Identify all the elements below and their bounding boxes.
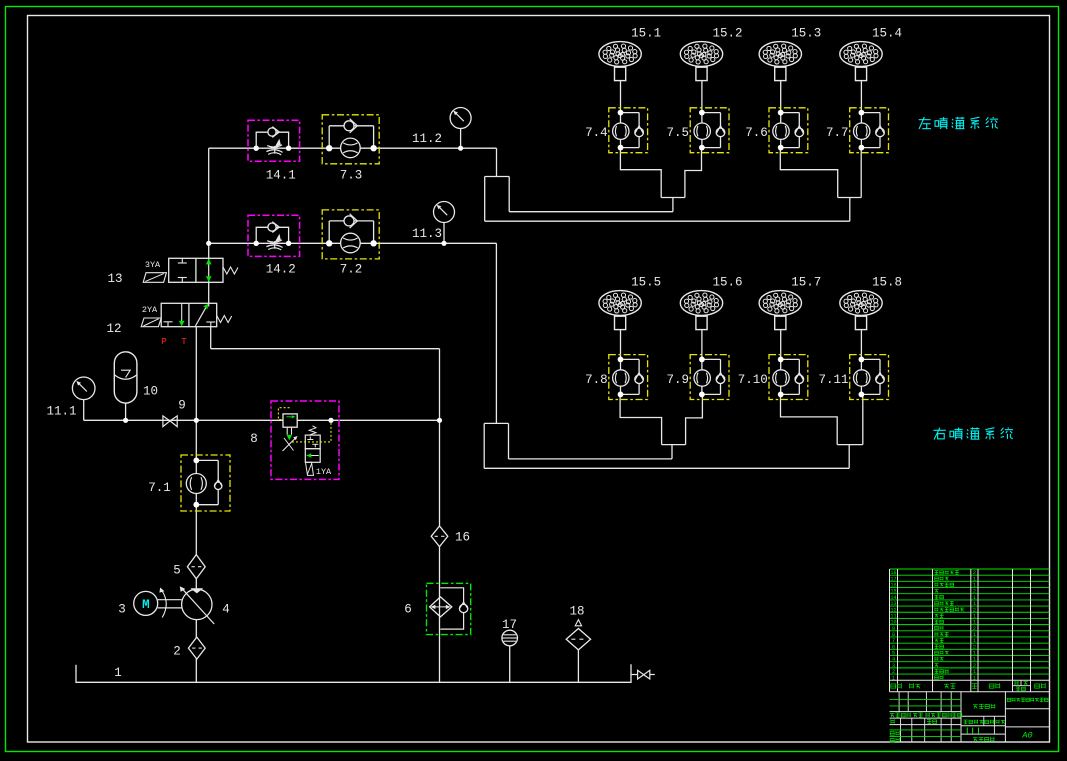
wire sprinkler 15.3 drop [780,81,782,112]
svg-text:1: 1 [973,613,976,619]
wire main line 11.2 row [209,147,497,149]
wire sprinkler 15.2 drop [701,81,703,112]
svg-text:2: 2 [892,669,895,675]
wire feed drop to left sprinkler manifold [496,148,498,176]
svg-text:2: 2 [973,607,976,613]
throttle check valve 14.1 [254,127,292,155]
wire left manifold pipe B [485,220,850,222]
svg-text:1: 1 [973,595,976,601]
solenoid valve 13 [143,258,238,282]
svg-text:7.6: 7.6 [745,126,768,140]
wire gauge 17 stem [509,646,511,683]
wire sprinkler 15.4 drop [860,81,862,112]
svg-text:1: 1 [973,638,976,644]
throttle check valve 14.2 dashed box [248,215,300,256]
shut-off valve 9 [163,416,177,427]
svg-text:3: 3 [892,663,895,669]
drain valve [631,670,655,679]
svg-text:15.7: 15.7 [791,276,821,290]
svg-text:1: 1 [973,675,976,681]
svg-text:2: 2 [973,589,976,595]
svg-text:7: 7 [892,638,895,644]
filter 16 [431,526,448,547]
wire between valve 13 and valve 12 [208,282,210,303]
wire sprinkler 15.6 drop [701,330,703,359]
svg-text:1: 1 [973,632,976,638]
wire branch collector 7.8/7.9 [620,394,662,444]
svg-text:11: 11 [890,613,896,619]
wire left manifold left wall [484,177,486,222]
flow control valve 7.9 dashed box [690,355,729,400]
svg-text:2YA: 2YA [142,305,158,315]
wire right manifold right wall [508,423,510,459]
flow control valve 7.4 [585,110,643,151]
sprinkler head 15.8 [840,276,902,331]
wire right manifold pipe A [509,458,673,460]
svg-text:7.9: 7.9 [666,373,689,387]
wire feed drop to right sprinkler manifold [495,243,497,423]
flow control valve 7.10 [738,357,804,398]
wire gauge-accumulator line to relief valve [84,419,440,421]
svg-text:6: 6 [892,644,895,650]
svg-text:1: 1 [973,657,976,663]
svg-text:2: 2 [973,663,976,669]
svg-text:T: T [181,336,187,347]
wire air filter 18 stem [577,650,579,682]
svg-text:M: M [142,598,150,612]
pilot line yellow dotted [278,408,331,442]
svg-text:A0: A0 [1021,731,1032,741]
svg-text:2: 2 [973,626,976,632]
label left irrigation system [919,117,998,129]
flow control valve 7.3 [326,119,377,158]
pressure gauge 11.3 [434,202,455,223]
flow control valve 7.1 [186,458,222,508]
sprinkler head 15.4 [840,27,902,82]
node junction on line 11.3 [206,241,211,246]
wire sprinkler 15.1 drop [620,81,622,112]
sprinkler head 15.1 [599,27,661,82]
svg-text:3: 3 [118,603,126,617]
flow control valve 7.11 [818,357,884,398]
title block BOM header row [891,681,1045,691]
flow control valve 7.10 dashed box [769,355,808,400]
svg-text:1: 1 [973,583,976,589]
svg-text:7.2: 7.2 [340,263,363,277]
svg-text:2: 2 [173,645,181,659]
svg-text:P: P [161,336,167,347]
flow control valve 7.6 dashed box [769,108,808,153]
svg-text:3YA: 3YA [145,260,161,270]
filter unit 6 dashed box [427,583,471,634]
wire main line 11.3 row [209,242,497,244]
svg-text:17: 17 [502,618,517,632]
pressure gauge 11.1 [72,377,95,400]
throttle check valve 14.2 [254,222,292,250]
svg-text:15.2: 15.2 [712,27,742,41]
svg-text:1: 1 [973,620,976,626]
rotation arrow [162,591,166,618]
svg-text:10: 10 [890,620,896,626]
pilot valve 1YA of relief valve 8 [305,426,332,477]
wire sprinkler 15.8 drop [860,330,862,359]
svg-text:1: 1 [973,576,976,582]
svg-text:7.3: 7.3 [340,169,363,183]
svg-text:15: 15 [890,589,896,595]
node junction pump riser and gauge line [194,418,199,423]
wire branch collector 7.10/7.11 [781,394,838,444]
svg-text:1: 1 [892,675,895,681]
svg-text:12: 12 [106,322,121,336]
svg-text:18: 18 [569,605,584,619]
svg-text:15.4: 15.4 [872,27,902,41]
motor shaft [158,599,182,601]
svg-text:2: 2 [973,644,976,650]
wire sprinkler 15.7 drop [780,330,782,359]
level gauge 17 [502,630,518,646]
wire tank line 1 [76,664,631,682]
svg-text:1: 1 [973,669,976,675]
svg-text:11.3: 11.3 [412,227,442,241]
wire gauge 11.1 stem [83,400,85,421]
flow control valve 7.11 dashed box [850,355,889,400]
flow control valve 7.9 [666,357,724,398]
svg-text:16: 16 [890,583,896,589]
node junction return riser and relief line [437,418,442,423]
wire pump riser through 7.1 [195,327,197,683]
svg-text:5: 5 [892,651,895,657]
wire right manifold left wall [483,423,485,468]
title block texts [890,698,1048,743]
svg-text:16: 16 [455,531,470,545]
svg-text:14.2: 14.2 [266,263,296,277]
flow control valve 7.8 [585,357,643,398]
sprinkler head 15.7 [759,276,821,331]
svg-text:12: 12 [890,607,896,613]
pilot relief valve 8 dashed box [271,401,339,479]
svg-text:7.11: 7.11 [818,373,848,387]
svg-text:4: 4 [222,603,230,617]
wire sprinkler 15.5 drop [620,330,622,359]
svg-text:14.1: 14.1 [266,169,296,183]
variable displacement pump 4 [180,586,214,624]
flow control valve 7.8 dashed box [609,355,648,400]
svg-text:1: 1 [973,651,976,657]
check valve 2 [188,637,205,659]
wire valve 12 drain down [210,327,212,349]
svg-text:8: 8 [892,632,895,638]
filter unit 6 [430,588,468,629]
svg-text:15.1: 15.1 [631,27,661,41]
throttle check valve 14.1 dashed box [248,120,300,161]
svg-text:7.8: 7.8 [585,373,608,387]
svg-text:18: 18 [890,570,896,576]
svg-text:15.6: 15.6 [712,276,742,290]
svg-text:2: 2 [973,570,976,576]
svg-text:4: 4 [892,657,895,663]
wire return riser to tank [439,349,441,683]
solenoid valve 12 [141,303,232,326]
flow control valve 7.5 dashed box [690,108,729,153]
sprinkler head 15.6 [680,276,742,331]
wire branch collector 7.4/7.5 [620,148,661,198]
wire gauge 11.3 stem [443,223,445,244]
svg-text:1YA: 1YA [316,467,332,477]
pressure gauge 11.2 [450,108,471,129]
svg-text:10: 10 [143,385,158,399]
sprinkler head 15.5 [599,276,661,331]
svg-text:13: 13 [890,601,896,607]
svg-text:8: 8 [250,432,258,446]
svg-text:13: 13 [107,272,122,286]
wire left manifold header top [485,176,510,178]
svg-text:1: 1 [973,601,976,607]
svg-text:7.10: 7.10 [738,373,768,387]
flow control valve 7.7 dashed box [850,108,889,153]
wire right manifold header top [484,422,508,424]
motor 3 [134,591,158,615]
svg-text:1: 1 [114,666,122,680]
flow control valve 7.2 [326,214,377,253]
wire accumulator stem [125,403,127,420]
wire left manifold right wall [508,177,510,212]
flow control valve 7.5 [666,110,724,151]
flow control valve 7.3 dashed box [322,115,379,164]
svg-text:15.8: 15.8 [872,276,902,290]
svg-text:5: 5 [173,564,181,578]
svg-text:7.1: 7.1 [148,481,171,495]
flow control valve 7.7 [826,110,884,151]
flow control valve 7.2 dashed box [322,210,379,259]
svg-text:15.5: 15.5 [631,276,661,290]
pilot relief valve 8 main stage [283,414,298,451]
flow control valve 7.6 [745,110,803,151]
wire left manifold pipe A [509,211,673,213]
title block BOM rows content [890,570,976,681]
flow control valve 7.1 dashed box [181,455,230,511]
check valve 5 [187,555,205,579]
svg-text:17: 17 [890,576,896,582]
sprinkler head 15.2 [680,27,742,82]
label right irrigation system [933,427,1013,439]
title block lower section grid [890,692,1050,742]
wire branch collector 7.6/7.7 [780,148,837,198]
air filter 18 [566,620,590,650]
wire valve 12 drain horizontal [211,348,440,350]
svg-text:14: 14 [890,595,896,601]
svg-text:15.3: 15.3 [791,27,821,41]
svg-text:9: 9 [178,399,186,413]
svg-text:11.2: 11.2 [412,132,442,146]
svg-text:7.4: 7.4 [585,126,608,140]
wire right manifold pipe B [484,467,849,469]
wire gauge 11.2 stem [460,129,462,149]
svg-text:7.7: 7.7 [826,126,849,140]
sprinkler head 15.3 [759,27,821,82]
accumulator 10 [114,352,137,403]
wire vertical from line 11.2 to valves 13/12 [208,148,210,258]
svg-text:7.5: 7.5 [666,126,689,140]
svg-text:6: 6 [404,603,412,617]
title block BOM table [890,569,1050,692]
svg-text:11.1: 11.1 [46,405,76,419]
flow control valve 7.4 dashed box [609,108,648,153]
svg-text:9: 9 [892,626,895,632]
